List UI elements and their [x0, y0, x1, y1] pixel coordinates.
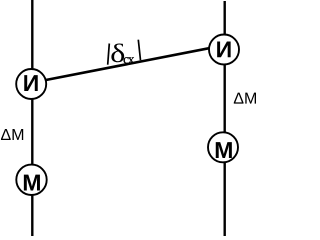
meter И (right)	[209, 35, 239, 65]
wire: right feeder (vertical bus)	[223, 1, 225, 236]
value label ΔМ (right feeder)	[234, 93, 256, 104]
wire: sloped link between the two И meters	[33, 46, 222, 83]
value label |δсх.| : delta symbol	[111, 43, 124, 62]
value label |δсх.| : subscript сх.	[124, 57, 136, 63]
value label |δсх.| on the link wire : left bar	[108, 44, 110, 65]
meter И (left)	[16, 69, 46, 99]
value label |δсх.| : right bar	[138, 40, 140, 61]
wire: left feeder (vertical bus)	[31, 0, 33, 236]
value label ΔМ (left feeder)	[1, 129, 23, 140]
meter М (right)	[208, 132, 238, 162]
meter М (left)	[16, 165, 46, 195]
